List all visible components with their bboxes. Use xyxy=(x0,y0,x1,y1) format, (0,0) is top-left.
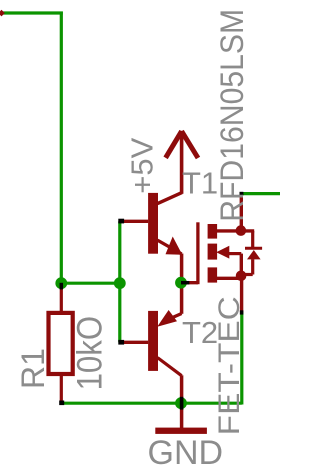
svg-text:FET-TEC: FET-TEC xyxy=(213,296,246,435)
svg-text:10kO: 10kO xyxy=(71,316,110,391)
svg-text:+5V: +5V xyxy=(124,137,159,193)
svg-text:T1: T1 xyxy=(182,165,218,200)
svg-text:GND: GND xyxy=(148,434,224,472)
svg-text:RFD16N05LSM: RFD16N05LSM xyxy=(214,9,250,222)
svg-text:R1: R1 xyxy=(15,348,51,389)
